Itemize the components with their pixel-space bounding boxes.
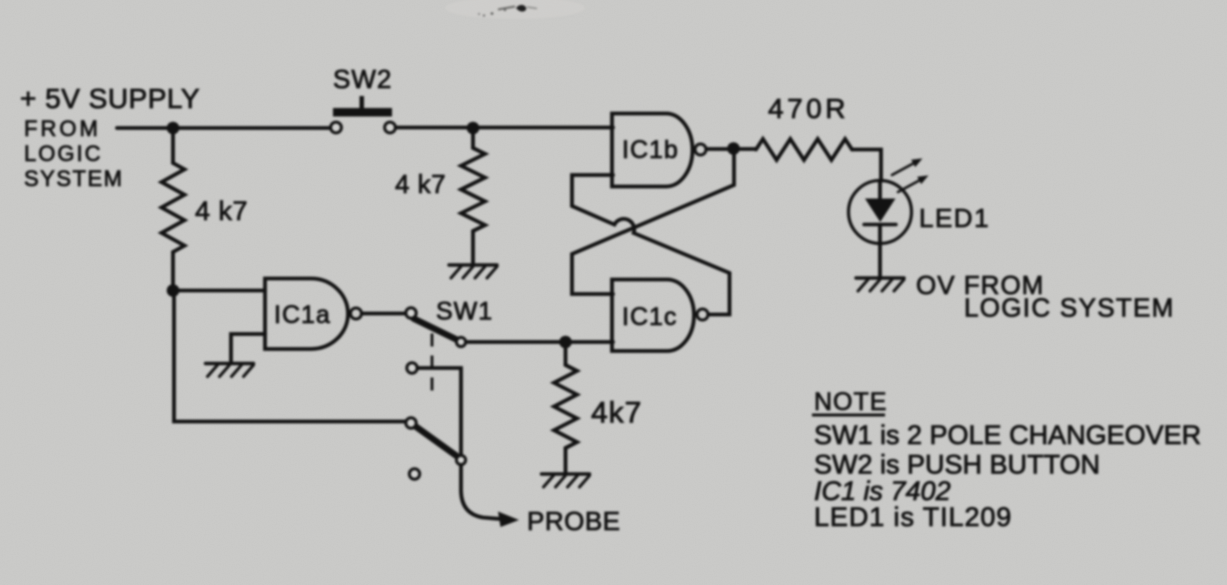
- svg-text:+ 5V SUPPLY: + 5V SUPPLY: [20, 83, 200, 114]
- svg-text:PROBE: PROBE: [527, 506, 621, 536]
- svg-text:IC1c: IC1c: [622, 303, 677, 331]
- svg-text:LOGIC: LOGIC: [24, 141, 102, 166]
- svg-text:SW2: SW2: [333, 64, 392, 94]
- svg-text:SW1 is 2 POLE CHANGEOVER: SW1 is 2 POLE CHANGEOVER: [814, 420, 1201, 450]
- svg-text:4 k7: 4 k7: [195, 196, 248, 226]
- svg-text:470R: 470R: [768, 93, 849, 124]
- svg-text:LED1 is TIL209: LED1 is TIL209: [814, 502, 1012, 532]
- svg-text:FROM: FROM: [24, 116, 101, 141]
- svg-text:4k7: 4k7: [591, 397, 642, 430]
- svg-text:LED1: LED1: [919, 203, 990, 233]
- svg-text:SYSTEM: SYSTEM: [24, 166, 123, 191]
- svg-text:SW1: SW1: [436, 298, 493, 326]
- svg-text:IC1b: IC1b: [622, 136, 679, 164]
- svg-text:NOTE: NOTE: [814, 388, 887, 416]
- svg-text:IC1a: IC1a: [274, 301, 331, 329]
- svg-text:SW2 is PUSH BUTTON: SW2 is PUSH BUTTON: [814, 450, 1100, 480]
- svg-text:4 k7: 4 k7: [395, 169, 446, 199]
- svg-text:LOGIC SYSTEM: LOGIC SYSTEM: [964, 293, 1175, 323]
